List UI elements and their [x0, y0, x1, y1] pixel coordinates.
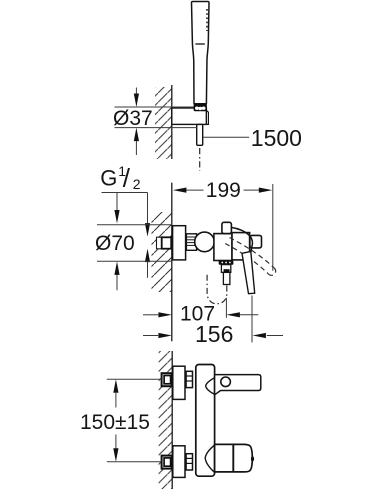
- outlet step: [221, 265, 230, 273]
- svg-text:Ø37: Ø37: [113, 107, 153, 130]
- svg-text:G: G: [100, 165, 117, 190]
- svg-text:156: 156: [195, 321, 233, 347]
- holder block on wall: [172, 108, 209, 124]
- body section 1 (cartridge housing): [214, 234, 232, 261]
- spout cone chevron: [206, 378, 215, 395]
- hose loop centerline (dash-dot): [207, 274, 227, 304]
- wall (bottom section): [159, 351, 173, 489]
- end cap: [250, 235, 262, 248]
- lever handle (alternate position, dashed): [225, 238, 275, 276]
- dimension Ø37: [115, 88, 197, 156]
- bottom escutcheon: [173, 446, 185, 478]
- shower outlet collar (knurled nut): [219, 260, 234, 264]
- bath spout: [215, 375, 261, 395]
- lever handle (solid): [231, 227, 252, 251]
- top supply elbow: [162, 373, 172, 386]
- supply pipe in wall: [157, 237, 173, 249]
- svg-text:199: 199: [206, 179, 241, 202]
- wall (top section): [155, 85, 172, 159]
- diverter knob on top: [222, 222, 232, 233]
- wall (middle section): [152, 183, 172, 342]
- dimension 156: [143, 296, 283, 343]
- dimension 199: [186, 184, 273, 271]
- svg-text:2: 2: [133, 176, 141, 192]
- dimension 107: [143, 298, 258, 318]
- mixer body (front view): [196, 365, 215, 477]
- top escutcheon: [173, 366, 185, 399]
- union nut: [186, 234, 196, 251]
- svg-text:Ø70: Ø70: [95, 232, 135, 255]
- label 1500 (hose length): [203, 136, 250, 138]
- dimension Ø70: [97, 225, 172, 290]
- spout hole: [221, 377, 231, 387]
- knob marker nub: [251, 456, 254, 461]
- hand shower head and handle: [191, 2, 209, 104]
- temperature knob: [215, 444, 253, 472]
- svg-text:150±15: 150±15: [80, 411, 150, 434]
- bottom supply elbow: [162, 456, 172, 469]
- bottom union nut: [186, 454, 192, 470]
- svg-text:1500: 1500: [251, 125, 302, 151]
- label G 1/2: [100, 163, 150, 278]
- knurled ring of hand shower: [194, 104, 207, 111]
- escutcheon (S-union cover): [173, 226, 186, 260]
- knob cone chevron: [205, 445, 214, 472]
- outlet tube: [223, 272, 230, 284]
- hose connector tube: [197, 124, 203, 145]
- ball joint: [195, 232, 215, 252]
- top union nut: [186, 371, 192, 387]
- hose centerline (dash-dot): [199, 148, 201, 171]
- svg-text:/: /: [123, 163, 131, 193]
- dimension 150±15: [107, 379, 162, 462]
- body section 2: [232, 233, 250, 260]
